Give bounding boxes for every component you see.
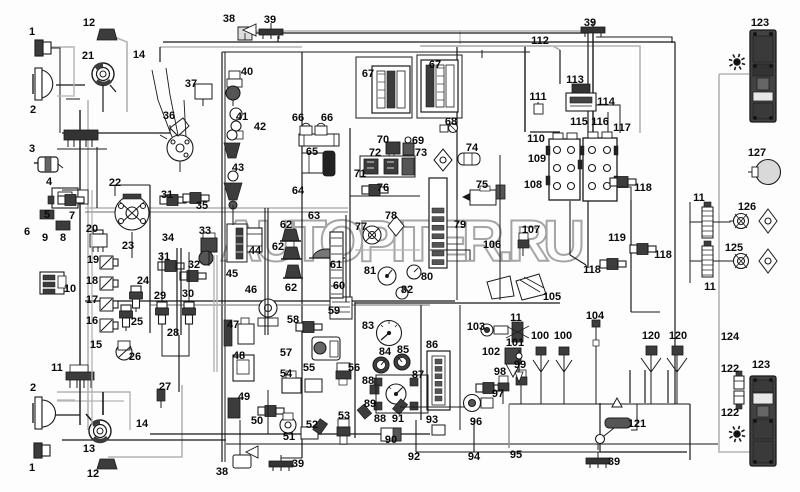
wire <box>62 439 226 441</box>
relay 113 <box>572 84 590 93</box>
sensor 7 <box>58 196 65 204</box>
coilpack 66 <box>299 134 339 146</box>
svg-text:40: 40 <box>241 66 253 78</box>
svg-text:62: 62 <box>280 219 292 231</box>
svg-text:55: 55 <box>303 362 315 374</box>
svg-text:67: 67 <box>362 68 374 80</box>
wire <box>108 385 182 457</box>
svg-text:21: 21 <box>82 50 94 62</box>
relay 52 <box>301 427 318 439</box>
svg-text:121: 121 <box>628 418 646 430</box>
svg-text:51: 51 <box>283 431 295 443</box>
svg-text:90: 90 <box>385 434 397 446</box>
svg-text:109: 109 <box>528 153 546 165</box>
svg-text:12: 12 <box>87 468 99 480</box>
wire <box>267 208 269 335</box>
conn 88a <box>370 385 379 394</box>
device 43 <box>228 171 238 181</box>
svg-text:3: 3 <box>29 143 35 155</box>
washer 45 <box>227 224 247 262</box>
svg-text:92: 92 <box>408 451 420 463</box>
fuse 18 <box>100 277 113 290</box>
conn 73a <box>402 158 414 175</box>
wire <box>650 372 652 404</box>
sensor 44 <box>236 228 243 259</box>
svg-text:2: 2 <box>30 104 36 116</box>
wire <box>277 36 279 42</box>
wire <box>239 33 241 36</box>
wire <box>473 420 475 452</box>
wire <box>115 185 150 196</box>
sensor 104 <box>592 320 600 327</box>
svg-text:99: 99 <box>514 359 526 371</box>
block 10 <box>40 272 64 294</box>
plug 50 <box>258 407 265 415</box>
svg-text:87: 87 <box>412 369 424 381</box>
wire <box>91 190 93 425</box>
svg-text:8: 8 <box>60 232 66 244</box>
svg-text:71: 71 <box>354 168 366 180</box>
conn 118a <box>610 178 617 186</box>
wire 11c <box>713 221 734 222</box>
dome 62a <box>282 229 299 241</box>
wire <box>216 255 218 372</box>
wire <box>57 392 130 430</box>
diamond 73 <box>434 149 452 171</box>
svg-text:44: 44 <box>249 245 262 257</box>
svg-text:22: 22 <box>109 177 121 189</box>
svg-text:98: 98 <box>494 366 506 378</box>
wire 119 <box>631 311 660 313</box>
svg-text:105: 105 <box>543 291 561 303</box>
lamp 127 <box>756 160 781 185</box>
wire battery-110 <box>530 131 560 133</box>
distributor 36 <box>167 135 193 161</box>
wire <box>600 403 687 452</box>
svg-text:100: 100 <box>554 330 572 342</box>
svg-text:34: 34 <box>162 232 175 244</box>
wire <box>162 326 189 356</box>
svg-text:122: 122 <box>721 407 739 419</box>
svg-text:32: 32 <box>188 259 200 271</box>
pump 26 <box>116 344 132 360</box>
wire <box>163 41 675 43</box>
svg-text:118: 118 <box>654 249 672 261</box>
svg-text:38: 38 <box>223 13 235 25</box>
sensor 32 <box>180 272 187 280</box>
svg-text:7: 7 <box>69 210 75 222</box>
svg-text:9: 9 <box>42 232 48 244</box>
conn 89 <box>357 404 372 419</box>
grommet 125 <box>734 254 749 269</box>
sensor 100a <box>536 347 546 355</box>
svg-text:83: 83 <box>362 320 374 332</box>
svg-text:97: 97 <box>492 388 504 400</box>
coil 66a <box>300 126 312 135</box>
svg-text:39: 39 <box>608 456 620 468</box>
wire <box>240 32 588 34</box>
device 102 <box>505 348 521 364</box>
spark wires <box>152 70 172 137</box>
flare bottom <box>734 431 740 437</box>
svg-text:5: 5 <box>44 209 50 221</box>
coil 66b <box>315 126 327 135</box>
device 38 top <box>238 27 252 40</box>
motor 59 <box>312 337 340 360</box>
switch 75 <box>470 190 496 205</box>
svg-text:57: 57 <box>280 347 292 359</box>
lamp cluster 11d <box>702 246 713 277</box>
wire <box>559 50 561 84</box>
svg-text:89: 89 <box>364 398 376 410</box>
conn 71 <box>384 159 398 174</box>
wire <box>224 52 226 462</box>
svg-text:16: 16 <box>86 315 98 327</box>
wire <box>102 392 104 415</box>
svg-text:114: 114 <box>597 96 616 108</box>
relay 70 <box>386 142 400 154</box>
wire <box>502 398 504 404</box>
svg-text:72: 72 <box>369 147 381 159</box>
wire <box>524 46 526 132</box>
svg-text:4: 4 <box>46 176 53 188</box>
wire <box>630 200 632 312</box>
svg-text:108: 108 <box>524 179 542 191</box>
wire 114 <box>596 105 620 133</box>
wire <box>66 98 80 100</box>
svg-text:120: 120 <box>642 330 660 342</box>
svg-text:13: 13 <box>83 443 95 455</box>
wire <box>349 128 351 300</box>
flare top <box>734 59 740 65</box>
svg-text:47: 47 <box>227 319 239 331</box>
svg-text:80: 80 <box>421 271 433 283</box>
dome 62c <box>285 265 301 278</box>
sensor 53 <box>338 419 349 427</box>
svg-text:39: 39 <box>584 17 596 29</box>
svg-text:31: 31 <box>161 189 173 201</box>
svg-text:24: 24 <box>137 275 150 287</box>
wire <box>459 305 461 430</box>
wire <box>85 300 455 302</box>
starter switch 5 <box>40 210 54 219</box>
wire <box>570 201 586 265</box>
svg-text:38: 38 <box>216 466 228 478</box>
wire <box>232 205 234 225</box>
wire 125 <box>713 260 734 262</box>
grommet 103 <box>481 324 493 336</box>
sensor 35 <box>183 194 190 202</box>
svg-text:29: 29 <box>154 290 166 302</box>
sensor 107 <box>519 233 528 240</box>
svg-text:70: 70 <box>377 134 389 146</box>
wire <box>50 46 75 48</box>
wire <box>264 208 266 335</box>
conn 122b <box>734 391 744 404</box>
battery 115 <box>549 139 580 200</box>
svg-text:20: 20 <box>86 223 98 235</box>
svg-text:11: 11 <box>704 281 716 293</box>
device 90 <box>381 428 401 441</box>
ground 39 bottomleft <box>269 461 293 467</box>
wire <box>161 252 163 302</box>
svg-text:116: 116 <box>591 116 609 128</box>
svg-text:35: 35 <box>196 200 208 212</box>
stabilizer 86 <box>427 351 450 410</box>
svg-text:65: 65 <box>306 146 318 158</box>
wire <box>222 51 530 53</box>
horn 13 <box>89 420 111 442</box>
gauge 80 <box>407 265 421 279</box>
wire <box>597 444 599 450</box>
gauge 85 <box>394 354 410 370</box>
wire <box>509 403 690 405</box>
wire <box>226 443 718 445</box>
svg-text:27: 27 <box>159 381 171 393</box>
ground 39 topright <box>581 27 605 33</box>
wire <box>57 95 75 97</box>
svg-text:86: 86 <box>426 339 438 351</box>
wire <box>169 125 171 133</box>
gauge 81 <box>378 267 396 285</box>
svg-text:60: 60 <box>333 280 345 292</box>
lamp cluster 11c <box>702 207 713 238</box>
speedo 83 <box>377 321 402 346</box>
wire <box>179 161 181 172</box>
alternator 22 <box>115 196 149 230</box>
svg-text:67: 67 <box>429 59 441 71</box>
motor 46 <box>259 299 277 317</box>
wire <box>456 200 458 300</box>
sensor 33 <box>201 238 217 252</box>
sensor 40 <box>229 71 240 79</box>
wire <box>57 399 75 401</box>
svg-text:18: 18 <box>86 275 98 287</box>
svg-text:115: 115 <box>570 116 588 128</box>
svg-text:112: 112 <box>531 35 549 47</box>
svg-text:11: 11 <box>510 312 522 324</box>
svg-text:28: 28 <box>167 327 179 339</box>
svg-text:75: 75 <box>476 179 488 191</box>
svg-text:11: 11 <box>51 362 63 374</box>
dome 62b <box>283 247 300 259</box>
svg-text:48: 48 <box>233 350 245 362</box>
switch 77 <box>363 226 381 244</box>
box 37 <box>195 84 212 99</box>
svg-text:96: 96 <box>470 416 482 428</box>
sensor 120b <box>672 346 683 355</box>
device 38 bottom <box>233 455 251 468</box>
lamp 1 top <box>35 40 43 56</box>
conn 118b <box>630 245 637 253</box>
svg-text:113: 113 <box>566 74 584 86</box>
wire <box>213 255 215 372</box>
wire <box>131 232 133 258</box>
wire <box>456 47 458 200</box>
wire <box>85 207 348 209</box>
svg-text:78: 78 <box>385 210 397 222</box>
sensor 30 <box>184 302 194 308</box>
svg-text:23: 23 <box>122 240 134 252</box>
valve 121 <box>612 398 622 407</box>
headlamp 2 top <box>35 68 42 100</box>
svg-text:66: 66 <box>321 112 333 124</box>
wire <box>57 148 107 150</box>
svg-text:42: 42 <box>254 121 266 133</box>
svg-text:56: 56 <box>348 362 360 374</box>
wire <box>607 112 609 132</box>
sensor 98 <box>499 376 508 383</box>
svg-text:30: 30 <box>182 288 194 300</box>
cap 65 <box>302 153 323 173</box>
wire <box>631 404 637 430</box>
wire <box>420 46 640 133</box>
svg-text:85: 85 <box>397 344 409 356</box>
wire 11 bracket <box>689 202 691 283</box>
wire <box>563 372 565 404</box>
fuse 19 <box>100 256 113 269</box>
svg-text:117: 117 <box>613 122 631 134</box>
wire <box>355 302 560 304</box>
plug 76 <box>362 186 369 194</box>
svg-text:52: 52 <box>306 419 318 431</box>
coil 41 <box>230 108 242 120</box>
sensor 101 <box>518 350 520 382</box>
svg-text:93: 93 <box>426 414 438 426</box>
wire <box>57 48 60 133</box>
ground 39 bottomright <box>586 458 610 464</box>
svg-text:37: 37 <box>185 78 197 90</box>
dome 61 <box>313 249 341 258</box>
wire <box>73 48 75 95</box>
relay 67 left <box>372 66 410 113</box>
svg-text:74: 74 <box>466 142 479 154</box>
plug 97 <box>476 384 483 392</box>
svg-text:12: 12 <box>83 17 95 29</box>
wire <box>459 30 461 44</box>
svg-text:84: 84 <box>379 346 392 358</box>
gauge 84 <box>373 357 389 373</box>
svg-text:41: 41 <box>236 111 248 123</box>
svg-text:19: 19 <box>87 254 99 266</box>
svg-text:123: 123 <box>751 17 769 29</box>
wire <box>160 46 302 48</box>
svg-text:95: 95 <box>510 449 522 461</box>
wire 108 plug <box>496 185 505 199</box>
gauge 82 <box>396 287 408 299</box>
svg-text:76: 76 <box>377 182 389 194</box>
wire <box>719 73 749 75</box>
horn 12 bottom <box>97 459 117 469</box>
svg-text:54: 54 <box>280 368 293 380</box>
wire <box>112 36 127 112</box>
connbox 71-72 <box>360 156 415 177</box>
wire <box>540 372 542 404</box>
svg-text:106: 106 <box>483 239 501 251</box>
lamp 11e <box>512 322 523 342</box>
frame 67 left <box>356 57 412 118</box>
svg-text:49: 49 <box>238 391 250 403</box>
wire <box>102 85 104 112</box>
wire <box>644 370 646 403</box>
wire <box>79 110 81 425</box>
svg-text:79: 79 <box>454 219 466 231</box>
wire <box>239 420 241 455</box>
wire <box>345 215 347 302</box>
svg-text:77: 77 <box>355 221 367 233</box>
svg-text:62: 62 <box>285 282 297 294</box>
wire <box>62 132 170 134</box>
sensor 24 <box>131 286 141 292</box>
svg-text:82: 82 <box>401 284 413 296</box>
coil 3 <box>38 157 58 172</box>
svg-text:66: 66 <box>292 112 304 124</box>
wire <box>508 404 510 448</box>
fuse 16 <box>100 319 113 332</box>
cluster conns <box>374 378 382 386</box>
svg-text:68: 68 <box>445 116 457 128</box>
svg-text:1: 1 <box>29 26 35 38</box>
wire <box>149 185 151 333</box>
ground 39 topleft <box>259 29 283 35</box>
svg-text:15: 15 <box>90 339 102 351</box>
relay 67 right <box>421 60 458 112</box>
svg-text:39: 39 <box>292 458 304 470</box>
capsule 74 <box>458 153 480 165</box>
wire <box>57 400 124 402</box>
wire <box>421 45 551 47</box>
horn 21 <box>92 63 114 85</box>
pump 11 left <box>66 372 94 380</box>
sensor 31b <box>158 262 165 270</box>
svg-text:94: 94 <box>468 451 481 463</box>
svg-text:91: 91 <box>392 413 404 425</box>
switch 54 <box>282 378 301 393</box>
diamond 126b <box>759 209 777 233</box>
svg-text:122: 122 <box>721 363 739 375</box>
svg-text:59: 59 <box>328 305 340 317</box>
sender 47 <box>224 320 232 346</box>
sensor 99 <box>517 370 526 377</box>
box 93 <box>432 425 445 435</box>
cyl 34 <box>246 228 262 252</box>
svg-text:1: 1 <box>29 462 35 474</box>
wire <box>350 195 420 197</box>
pump 51 <box>280 417 296 433</box>
horn 12 top <box>97 29 117 40</box>
sensor 49 <box>228 398 240 418</box>
plug 68 <box>440 125 448 132</box>
svg-text:31: 31 <box>158 251 170 263</box>
motor 96 <box>464 395 481 412</box>
svg-text:81: 81 <box>364 265 376 277</box>
conn 111 <box>563 89 565 91</box>
svg-text:101: 101 <box>506 337 524 349</box>
wire <box>592 31 594 133</box>
svg-text:88: 88 <box>374 413 386 425</box>
wire <box>85 211 348 213</box>
svg-text:2: 2 <box>30 382 36 394</box>
battery caps <box>553 133 563 139</box>
diamond 125b <box>759 249 777 273</box>
svg-text:125: 125 <box>725 242 743 254</box>
wire <box>159 47 161 62</box>
wire <box>629 370 631 403</box>
svg-text:119: 119 <box>608 232 626 244</box>
wire <box>250 30 588 32</box>
sensor 56 <box>337 363 350 371</box>
sensor 120a <box>646 346 657 355</box>
